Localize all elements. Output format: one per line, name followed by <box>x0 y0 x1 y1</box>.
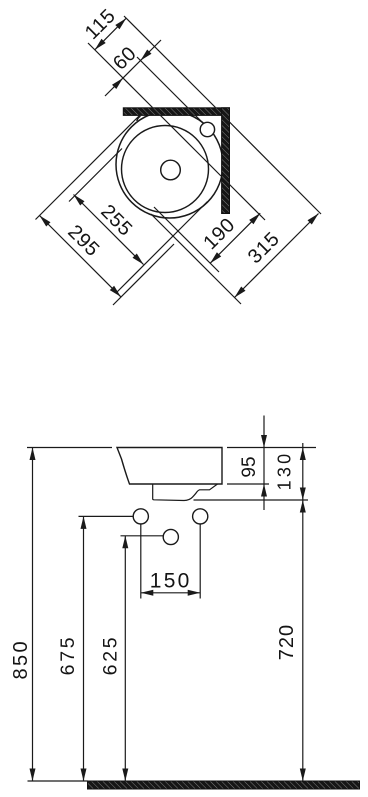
svg-text:95: 95 <box>239 456 260 477</box>
svg-text:130: 130 <box>275 451 295 491</box>
svg-text:850: 850 <box>10 639 32 680</box>
svg-text:150: 150 <box>150 570 192 593</box>
svg-text:625: 625 <box>99 635 121 676</box>
svg-text:675: 675 <box>57 635 79 676</box>
svg-text:720: 720 <box>276 624 298 660</box>
